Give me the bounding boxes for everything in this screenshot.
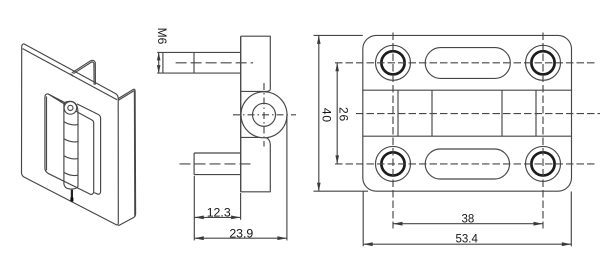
bottom slot [425,149,509,179]
fin bottom fillet [70,74,73,77]
hole bottom-left outer [376,146,411,181]
barrel knuckle arc 3 [64,156,78,159]
53.4 dimension line [363,243,571,245]
knuckle division 2 [431,90,433,136]
M6 dimension line [158,52,160,73]
M6 dimension extension lines [157,52,163,73]
centerline vertical left holes [392,33,394,229]
plate side face (receding right wall) [118,89,135,226]
hole top-right outer [526,45,561,80]
top stud division [193,52,195,73]
26 dimension line [336,63,338,164]
side plate outline [241,36,271,192]
svg-text:12.3: 12.3 [207,205,231,219]
hole bottom-right outer [526,146,561,181]
40 dimension line [318,35,320,191]
band bottom line [363,135,572,137]
barrel knuckle arc 4 [64,172,78,175]
barrel outer circle [241,92,287,138]
53.4 extension lines [363,192,571,247]
38 dimension line [393,223,543,225]
40 dimension extension lines [314,35,369,191]
23.9 dimension line [194,237,287,239]
bottom stud centerline [180,163,254,165]
top stud [163,52,241,73]
hinge body rounded rect [363,35,572,191]
M6 arrowheads [157,52,161,73]
38 arrowheads [393,222,543,226]
plate top edge thickness line [23,49,117,100]
pin bottom tip [70,198,73,202]
band top line [241,90,271,92]
12.3 arrowheads [194,216,240,220]
svg-text:38: 38 [462,214,475,226]
barrel bottom cap [64,184,78,189]
barrel circle centerline vertical [263,83,265,147]
knuckle division 3 [501,90,503,136]
23.9 right extension [286,116,288,241]
back leaf strip edge-on [77,104,101,194]
svg-text:M6: M6 [155,28,169,45]
svg-text:23.9: 23.9 [229,227,253,241]
barrel knuckle arc 1 [64,122,78,125]
band top line [363,89,572,91]
hole top-left inner [381,51,404,74]
40 arrowheads [317,35,321,191]
barrel circle centerline horizontal [233,114,296,116]
hole top-right inner [531,51,554,74]
top slot [425,48,510,79]
knuckle division 1 [397,90,399,136]
svg-text:26: 26 [336,107,350,122]
svg-text:53.4: 53.4 [456,233,479,245]
fin thickness line [73,62,94,85]
svg-text:40: 40 [320,108,334,123]
bottom stud [194,153,241,175]
barrel inner circle [253,103,276,126]
fin (back leaf tab) outline [72,60,96,84]
pin head outer circle [64,102,77,115]
front leaf outline [45,94,94,195]
53.4 arrowheads [363,242,571,246]
hole bottom-left inner [381,152,404,175]
12.3 extension lines [194,176,240,241]
centerline vertical right holes [542,33,544,229]
leaf left edge thickness [46,96,48,170]
band bottom line [241,137,271,143]
centerline horizontal top holes [335,62,597,64]
pin head inner circle [68,105,73,110]
centerline horizontal bottom holes [335,163,597,165]
23.9 arrowheads [194,236,287,240]
pin bottom [71,190,73,202]
mounting plate front face [22,44,119,225]
barrel cylinder [64,101,78,186]
plate left edge redraw [240,36,242,192]
12.3 dimension line [194,216,240,218]
26 arrowheads [335,63,339,164]
hole top-left outer [376,45,411,80]
barrel knuckle arc 2 [64,139,78,142]
centerline horizontal middle [356,113,600,115]
side face top thickness line [118,91,134,100]
hole bottom-right inner [531,152,554,175]
side face inner edge line [133,91,135,216]
top stud centerline [176,62,253,64]
knuckle division 4 [535,90,537,136]
